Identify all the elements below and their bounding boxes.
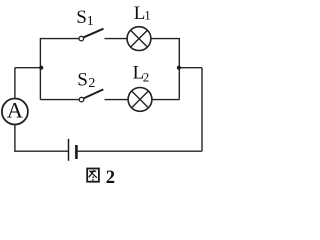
svg-text:2: 2 [143,70,150,85]
svg-text:S: S [76,7,87,28]
svg-text:2: 2 [88,76,95,91]
svg-text:S: S [77,70,88,91]
svg-text:A: A [7,98,24,123]
svg-text:1: 1 [144,8,151,23]
svg-text:1: 1 [87,14,94,29]
svg-text:2: 2 [106,168,115,188]
